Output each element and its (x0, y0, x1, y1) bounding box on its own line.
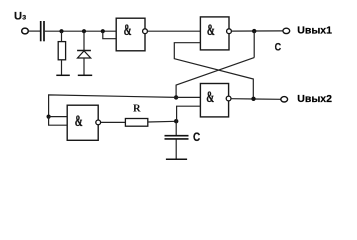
wire into D3 upper input (176, 96, 200, 98)
wire down to R1 (61, 31, 63, 41)
svg-text:&: & (206, 87, 214, 105)
node junction output 1 (252, 29, 256, 33)
wire feedback D3 input to D4 inputs (49, 95, 177, 117)
output terminal Uвых2 (281, 97, 288, 102)
ground bar under R1 (56, 74, 70, 76)
diode VD1 (clamp) (77, 51, 91, 59)
node junction timing RC (174, 119, 178, 123)
wire D4 output to R (101, 121, 126, 123)
gate D3 (NAND, & ) (200, 84, 231, 117)
wire C to ground (175, 140, 177, 160)
svg-text:C: C (275, 42, 282, 54)
wire C1 to gate D1 inputs (45, 30, 116, 32)
wire cross-coupling D2 output to D3 input (diagonal) (176, 58, 254, 98)
gate D2 (NAND, & ) (200, 17, 231, 50)
wire D3 output to terminal Uвых2 (231, 98, 281, 101)
wire to D4 upper input (49, 116, 68, 118)
wire down to VD1 (83, 31, 85, 50)
node junction output 2 (251, 97, 255, 101)
capacitor C1 (input coupling) (41, 21, 44, 41)
svg-text:Uвых2: Uвых2 (297, 93, 332, 105)
svg-text:C: C (193, 131, 200, 144)
capacitor C (timing) (165, 136, 189, 139)
svg-text:Uвых1: Uвых1 (297, 25, 332, 37)
wire to gate D1 lower input (103, 31, 116, 39)
wire D3 lower input to timing node (177, 106, 201, 121)
node junction D3 upper input (174, 95, 178, 99)
node label Uз (14, 10, 26, 22)
wire VD1 to ground (83, 58, 85, 75)
resistor R1 (bias, vertical) (58, 42, 65, 60)
wire D2 lower input from D3 output (diagonal) (174, 43, 253, 99)
wire D2 output to terminal Uвых1 (231, 30, 283, 32)
svg-text:&: & (75, 112, 83, 130)
wire output1 node down (253, 31, 255, 57)
svg-text:&: & (124, 21, 132, 39)
output terminal Uвых1 (283, 28, 290, 33)
wire D1 output to D2 input (147, 30, 200, 32)
svg-text:R: R (133, 104, 141, 115)
wire to D4 lower input (49, 117, 68, 126)
svg-text:Uз: Uз (14, 10, 26, 22)
wire terminal to C1 (29, 30, 41, 32)
ground bar under VD1 (78, 74, 92, 76)
wire timing node down to C (175, 121, 177, 135)
node junction at resistor R1 (59, 29, 63, 33)
input terminal Uз (22, 28, 29, 34)
node junction at diode VD1 (82, 29, 86, 33)
gate D1 (NAND, & ) (116, 18, 147, 51)
resistor R (timing, horizontal) (125, 119, 147, 127)
ground bar under C (166, 158, 187, 160)
gate D4 (NAND, & ) (67, 105, 100, 140)
svg-text:&: & (207, 21, 215, 39)
node junction at gate D1 input (101, 29, 105, 33)
node junction D4 input (47, 115, 51, 119)
wire R to timing node (148, 120, 176, 123)
wire R1 to ground (61, 60, 63, 75)
